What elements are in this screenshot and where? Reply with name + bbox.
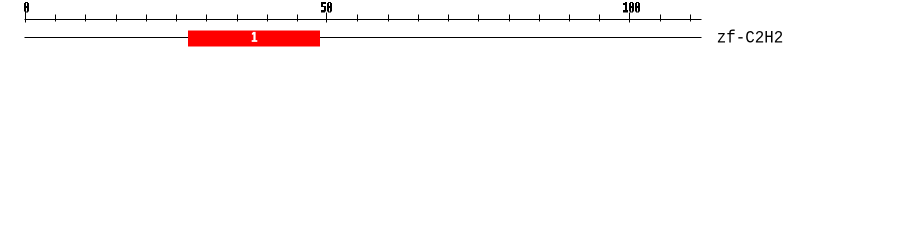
- protein backbone line: [25, 37, 702, 39]
- ruler label 0: [24, 2, 29, 12]
- ruler label 50: [321, 2, 332, 12]
- domain box (red, residues ~27-49): [188, 31, 320, 47]
- ruler major tick at 100: [629, 13, 631, 23]
- ruler minor ticks (every 5 residues): [56, 15, 691, 22]
- ruler line: [25, 19, 702, 21]
- ruler major tick at 0: [25, 13, 27, 23]
- svg-text:zf-C2H2: zf-C2H2: [717, 29, 784, 49]
- ruler major tick at 50: [326, 13, 328, 23]
- ruler label 100: [623, 2, 640, 12]
- domain number 1 (white): [252, 32, 258, 42]
